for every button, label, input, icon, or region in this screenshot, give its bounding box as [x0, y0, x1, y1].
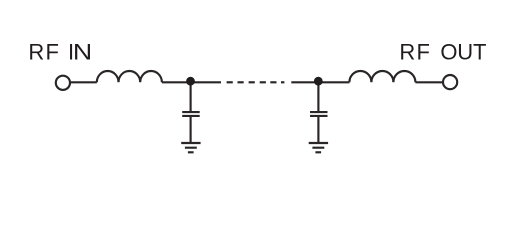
label RF OUT	[399, 40, 486, 65]
wire J1 to L1	[70, 81, 97, 83]
node A junction dot	[186, 77, 195, 86]
label RF IN	[28, 40, 92, 65]
svg-text:RF: RF	[28, 40, 60, 65]
wire node B to L2	[318, 81, 349, 83]
wire L1 to node A	[162, 81, 195, 83]
dashed wire (omitted sections)	[227, 81, 285, 83]
terminal J1 (RF IN port)	[56, 76, 70, 90]
wire C1 to ground	[190, 117, 192, 142]
capacitor C1	[182, 112, 200, 116]
ground (left)	[181, 143, 200, 152]
wire node B to C2	[317, 83, 319, 111]
svg-text:OUT: OUT	[440, 40, 486, 65]
capacitor C2	[310, 112, 328, 116]
terminal J2 (RF OUT port)	[443, 75, 457, 89]
wire node A to C1	[190, 83, 192, 111]
inductor L1	[97, 71, 162, 82]
wire L2 to J2	[415, 81, 443, 83]
svg-text:RF: RF	[399, 40, 431, 65]
inductor L2	[349, 71, 415, 82]
wire C2 to ground	[317, 117, 319, 142]
node B junction dot	[314, 77, 323, 86]
svg-text:N: N	[73, 41, 92, 65]
ground (right)	[309, 143, 328, 152]
wire node A to dashed section	[191, 81, 222, 83]
wire dashed section to node B	[291, 81, 322, 83]
